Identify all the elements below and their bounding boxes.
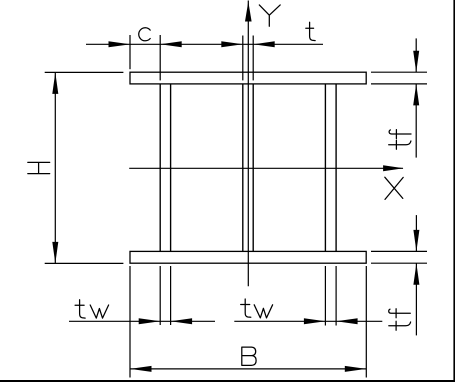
bottom flange: [130, 251, 366, 263]
label B: [242, 347, 256, 365]
t extension line right (x=253.2): [252, 36, 254, 81]
H top extension line: [45, 71, 124, 73]
tf bottom arrow upper (points down): [413, 230, 419, 252]
bottom border line: [0, 380, 455, 382]
B left extension line: [129, 266, 131, 378]
tf top arrow upper (points down): [413, 51, 419, 72]
tw right extension line 2: [335, 266, 337, 326]
c extension line left (x=130): [129, 35, 131, 69]
c dim arrow left (points right at x=130): [109, 41, 131, 47]
label Y: [259, 5, 280, 26]
label tw (left): [75, 300, 109, 318]
t dim arrow left (points right at x=242.8): [221, 41, 243, 47]
label tf (bottom, rotated): [389, 309, 411, 331]
tf top dimension line upper segment: [415, 38, 417, 72]
tw left dimension line: [69, 320, 215, 322]
B arrow right (points right at x=366.3): [345, 366, 367, 372]
tw left extension line 1: [159, 266, 161, 325]
tw left extension line 2: [170, 266, 172, 325]
H dimension line: [54, 72, 56, 263]
X axis line: [129, 167, 403, 169]
c extension line right / web face ext (x=160.2): [159, 35, 161, 80]
H dim arrow top (points up): [52, 72, 58, 94]
X axis arrowhead: [383, 165, 404, 171]
label tw (center): [241, 299, 273, 318]
tf bottom arrow lower (points up): [413, 263, 419, 285]
top dimension line (c and t): [86, 43, 323, 45]
Y axis arrowhead: [245, 2, 252, 22]
tf top extension line lower: [371, 83, 427, 85]
H bottom extension line: [45, 262, 124, 264]
tf bottom extension line lower: [371, 262, 427, 264]
tf bottom extension line upper: [371, 250, 427, 252]
tw right extension line 1: [324, 266, 326, 326]
right border line: [453, 0, 455, 382]
t dim arrow right (points left at x=253.2): [253, 41, 275, 47]
tw right dimension line: [234, 320, 382, 322]
tf top arrow lower (points up): [413, 84, 419, 106]
label c: [139, 28, 150, 41]
label t (top): [306, 22, 315, 40]
tf bottom dimension line lower segment: [415, 263, 417, 335]
t extension line left (x=242.8): [242, 36, 244, 81]
tw right arrow 1 (points right at x=325.4): [304, 318, 326, 324]
center web left face: [242, 84, 244, 252]
left web right face: [170, 84, 172, 252]
label X: [385, 177, 403, 199]
label H (rotated): [28, 162, 50, 173]
B right extension line: [365, 266, 367, 378]
top flange: [130, 72, 366, 84]
tf bottom dimension line upper segment: [415, 215, 417, 251]
label tf (top, rotated): [389, 130, 411, 150]
left web left face: [159, 84, 161, 252]
c dim arrow right (points left at x=160.2): [160, 41, 182, 47]
Y axis line: [247, 1, 249, 287]
tw left arrow 2 (points left at x=170.6): [171, 318, 193, 324]
B dimension line: [130, 368, 366, 370]
H dim arrow bottom (points down): [52, 242, 58, 264]
B arrow left (points left at x=130): [130, 366, 152, 372]
right web right face: [335, 84, 337, 252]
tw left arrow 1 (points right at x=160.2): [139, 318, 161, 324]
center web right face: [252, 84, 254, 252]
tf top dimension line lower segment: [415, 84, 417, 158]
right web left face: [324, 84, 326, 252]
tf top extension line upper: [371, 71, 427, 73]
tw right arrow 2 (points left at x=336.1): [336, 318, 358, 324]
